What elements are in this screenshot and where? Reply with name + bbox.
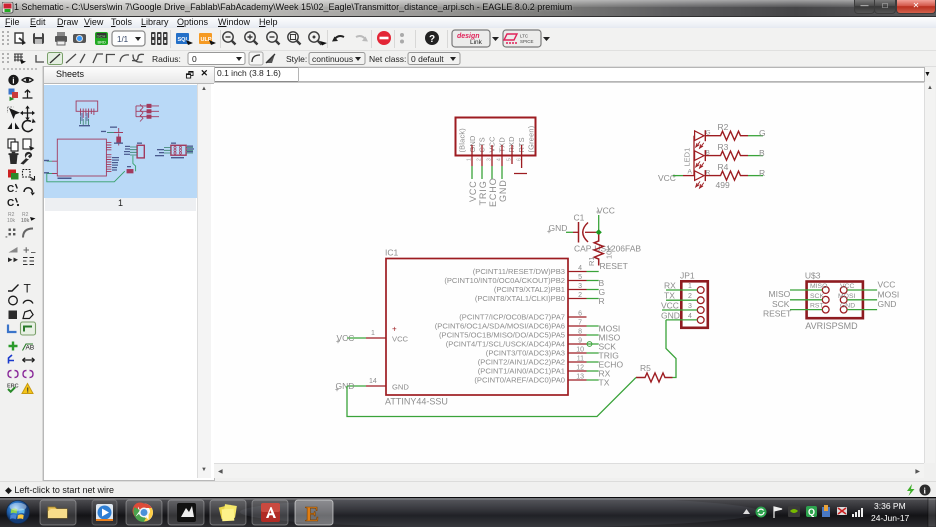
ulp orange xyxy=(199,33,212,44)
dotted handles xyxy=(2,31,9,45)
resistor R2 xyxy=(706,131,749,140)
wire GND net: R5 to IC1 GND xyxy=(347,378,636,417)
undo xyxy=(334,36,344,40)
svg-text:10k: 10k xyxy=(7,218,16,224)
node marker on SCK pin xyxy=(587,342,592,347)
select / move xyxy=(9,108,20,119)
svg-text:0 default: 0 default xyxy=(411,54,444,64)
node GND label (left of IC1) xyxy=(335,388,338,391)
svg-text:T: T xyxy=(24,282,32,296)
wmp xyxy=(96,504,113,521)
zoom minus xyxy=(267,32,280,45)
junction / label xyxy=(9,342,18,351)
svg-text:BRD: BRD xyxy=(98,40,107,45)
sticky notes xyxy=(219,504,237,521)
sql blue xyxy=(176,33,189,44)
svg-text:E: E xyxy=(305,502,319,526)
1/1 combo xyxy=(112,31,145,46)
mini U$3 xyxy=(171,145,186,155)
LED1 common anode rail xyxy=(693,136,695,176)
U$3 pin MOSI xyxy=(840,296,847,303)
app buttons xyxy=(40,500,333,525)
svg-text:?: ? xyxy=(429,34,435,45)
IC1 right-side pin names xyxy=(435,267,565,385)
pin numbers 1-6 xyxy=(467,158,523,161)
JP1 pin 2 xyxy=(697,297,704,304)
svg-text:C: C xyxy=(7,198,14,209)
svg-text:24-Jun-17: 24-Jun-17 xyxy=(871,513,910,523)
U$3 pin VCC xyxy=(840,287,847,294)
svg-text:SCH: SCH xyxy=(97,34,106,39)
tray xyxy=(743,509,750,514)
U$3 pin MISO xyxy=(822,287,829,294)
wire VCC to JP1 xyxy=(662,309,697,311)
explorer folder xyxy=(48,507,67,518)
pin 3 VCC xyxy=(491,145,493,166)
pin 4 TXD xyxy=(501,145,503,166)
grid icon xyxy=(14,54,23,62)
layers / mark xyxy=(9,89,15,95)
open xyxy=(15,33,23,43)
line / text xyxy=(8,285,19,292)
svg-text:10k: 10k xyxy=(21,218,30,224)
mini R5 xyxy=(127,170,133,173)
help xyxy=(425,31,439,45)
connector U$2 sonar header xyxy=(456,118,536,156)
wire SCK to U$3 xyxy=(790,299,822,301)
circle / arc xyxy=(9,296,18,305)
wire MOSI from U$3 xyxy=(847,299,877,301)
node GND label (at C1) xyxy=(547,230,550,233)
wire VCC to LED anode xyxy=(673,175,683,177)
wire GND net: JP1 pin4 down to R5 xyxy=(666,320,676,378)
JP1 pin 4 xyxy=(697,317,704,324)
IC1 right pin stubs xyxy=(568,272,587,381)
wire GND to JP1 xyxy=(666,319,697,321)
wedge / smash xyxy=(9,247,18,253)
copy / paste xyxy=(8,139,15,148)
paint / group xyxy=(8,170,16,178)
svg-text:Net class:: Net class: xyxy=(369,54,406,64)
wire GND to IC1 pin14 xyxy=(347,385,366,387)
U$3 pin RST xyxy=(822,306,829,313)
mini text blobs xyxy=(44,113,194,179)
LTC spice button xyxy=(503,30,541,47)
mini sonar connector xyxy=(76,101,98,111)
wire to B label xyxy=(748,155,763,157)
wire TX to JP1 xyxy=(666,299,697,301)
U$3 pin SCK xyxy=(822,296,829,303)
black 3d app xyxy=(177,503,196,522)
svg-text:3:36 PM: 3:36 PM xyxy=(874,501,906,511)
pin 5 RXD xyxy=(511,145,513,164)
LED1 red element xyxy=(695,170,706,188)
chrome xyxy=(135,504,153,522)
connector U$3 AVRISP xyxy=(805,271,863,332)
IC1 ATTINY44-SSU body xyxy=(386,259,568,396)
zoom select xyxy=(309,32,322,45)
wire MISO to U$3 xyxy=(790,289,822,291)
mini JP1 xyxy=(137,145,144,158)
mini wires xyxy=(47,156,136,182)
IC1 right pin numbers xyxy=(576,265,584,381)
svg-text:SPICE: SPICE xyxy=(520,39,534,44)
status icons bottom-right xyxy=(904,484,934,496)
JP1 pin 3 xyxy=(697,307,704,314)
svg-text:Radius:: Radius: xyxy=(152,54,181,64)
pin 6 RTS xyxy=(514,145,527,174)
junction node (VCC/C1/R1) xyxy=(596,229,602,235)
svg-text:continuous: continuous xyxy=(312,54,353,64)
wire net ECHO at sonar xyxy=(491,166,493,179)
resistor R4 xyxy=(706,171,749,180)
name dots / miter xyxy=(6,229,16,238)
zoom out xyxy=(223,32,236,45)
svg-text:!: ! xyxy=(27,386,30,395)
LED1 green element xyxy=(695,130,706,148)
pin 1 GND xyxy=(471,145,473,166)
wire net GND at sonar xyxy=(501,166,503,179)
wire VCC from U$3 xyxy=(847,289,877,291)
autocad xyxy=(261,503,280,522)
svg-text:C: C xyxy=(7,184,14,195)
svg-text:1/1: 1/1 xyxy=(117,35,129,44)
design link button xyxy=(452,30,490,47)
svg-text:LTC: LTC xyxy=(520,34,529,39)
start orb xyxy=(0,0,1,1)
tags / split xyxy=(8,258,18,263)
sch/brd xyxy=(95,32,108,45)
wire net VCC at sonar xyxy=(471,166,473,179)
trash / wrench xyxy=(10,155,18,164)
two dots xyxy=(400,33,404,37)
mini C1/R1 xyxy=(114,128,123,146)
wire GND to C1 xyxy=(566,231,573,233)
pin 2 CTS xyxy=(481,145,483,166)
wire VCC to IC1 pin1 xyxy=(347,337,366,339)
IC1 pin 14 GND xyxy=(366,385,386,387)
stop xyxy=(377,31,391,45)
zoom in xyxy=(245,32,258,45)
info / eye xyxy=(8,75,18,85)
rect / polygon xyxy=(9,311,18,320)
LED1 blue element xyxy=(695,150,706,168)
attributes xyxy=(8,371,33,378)
IC1 pin 1 VCC xyxy=(366,337,386,339)
camera xyxy=(73,34,86,43)
node VCC label (LED group) xyxy=(672,174,675,177)
save xyxy=(33,33,44,44)
wire to G label xyxy=(748,135,763,137)
wire / net xyxy=(8,325,17,333)
wire net TRIG at sonar xyxy=(481,166,483,179)
wire to R label xyxy=(748,175,763,177)
binders xyxy=(151,32,168,45)
JP1 pin 1 xyxy=(697,287,704,294)
node VCC label (top) xyxy=(596,210,599,213)
wire GND from U$3 xyxy=(847,309,877,311)
mini IC1 xyxy=(57,139,106,176)
U$3 pin GND xyxy=(840,306,847,313)
capacitor C1 xyxy=(579,222,599,243)
svg-text:i: i xyxy=(12,76,14,86)
wire VCC to junction xyxy=(598,215,600,232)
resistor R1 xyxy=(594,235,603,266)
svg-text:Link: Link xyxy=(470,39,483,46)
miter buttons xyxy=(249,52,263,65)
node VCC label (left of IC1) xyxy=(336,340,339,343)
svg-text:Q: Q xyxy=(808,507,815,517)
bend styles xyxy=(36,55,44,62)
redo xyxy=(356,36,366,40)
wire RESET to U$3 xyxy=(790,309,822,311)
mini LED cluster xyxy=(136,106,159,117)
svg-text:0: 0 xyxy=(192,54,197,64)
connector JP1 xyxy=(680,271,708,328)
wire RX to JP1 xyxy=(666,289,697,291)
bus / width xyxy=(9,355,15,364)
mirror / rotate xyxy=(8,123,20,130)
wire stubs to net labels (right of IC1) xyxy=(587,272,599,381)
resistor R5 xyxy=(636,373,673,382)
svg-text:AB: AB xyxy=(26,345,35,352)
zoom fit xyxy=(288,32,301,45)
resistor R3 xyxy=(706,151,749,160)
svg-text:Style:: Style: xyxy=(286,54,307,64)
print xyxy=(55,36,67,42)
